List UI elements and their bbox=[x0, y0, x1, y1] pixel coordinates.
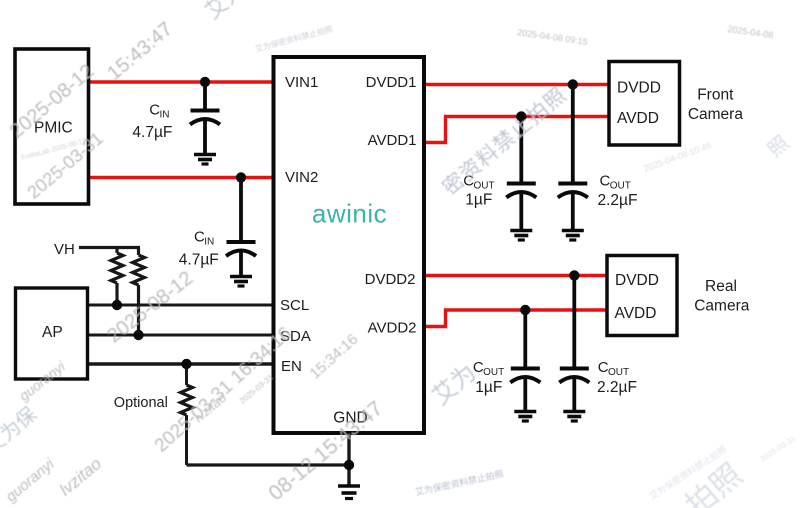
svg-text:SCL: SCL bbox=[280, 297, 309, 314]
resistor R-VH2 (VH pull-up to SDA) bbox=[133, 248, 145, 336]
node junction DVDD2/COUT4 bbox=[569, 270, 579, 280]
capacitor COUT2 (2.2uF front camera) bbox=[558, 85, 588, 232]
svg-text:EN: EN bbox=[281, 358, 302, 375]
pin SDA bbox=[280, 328, 311, 345]
AP box bbox=[16, 288, 88, 379]
node junction EN/R-EN bbox=[181, 359, 191, 369]
capacitor COUT4 (2.2uF real camera) bbox=[559, 276, 589, 413]
label CIN1 value bbox=[132, 102, 172, 142]
pin VIN2 bbox=[285, 169, 318, 186]
wire EN resistor to GND net bbox=[187, 463, 350, 466]
pin EN bbox=[281, 358, 302, 375]
svg-text:DVDD1: DVDD1 bbox=[366, 74, 417, 91]
label COUT2 value bbox=[598, 173, 638, 210]
ground for CIN1 bbox=[194, 155, 216, 165]
svg-text:AVDD2: AVDD2 bbox=[368, 320, 417, 337]
node junction AVDD2/COUT3 bbox=[520, 305, 530, 315]
ground for COUT1 bbox=[510, 231, 532, 241]
wire VIN1 (red, PMIC to VIN1) bbox=[87, 80, 275, 83]
wire VIN2 (red, PMIC to VIN2) bbox=[87, 176, 275, 179]
node junction VIN1/CIN1 bbox=[200, 77, 210, 87]
label Optional bbox=[114, 395, 168, 411]
label VH bbox=[54, 241, 75, 258]
svg-text:VIN2: VIN2 bbox=[285, 169, 318, 186]
pin SCL bbox=[280, 297, 309, 314]
wire SDA (AP to SDA) bbox=[87, 334, 275, 337]
svg-text:AVDD: AVDD bbox=[615, 305, 657, 322]
wire GND pin down bbox=[347, 432, 350, 486]
wire SCL (AP to SCL) bbox=[87, 304, 275, 307]
node junction GND net bbox=[344, 460, 354, 470]
wire VH rail bbox=[79, 246, 140, 249]
svg-text:DVDD: DVDD bbox=[615, 272, 659, 289]
svg-text:VH: VH bbox=[54, 241, 75, 258]
pin AVDD2 bbox=[368, 320, 417, 337]
label COUT1 value bbox=[463, 173, 494, 209]
capacitor CIN2 (4.7uF at VIN2) bbox=[226, 178, 256, 278]
Real Camera box bbox=[607, 256, 677, 336]
pin VIN1 bbox=[285, 74, 318, 91]
capacitor CIN1 (4.7uF at VIN1) bbox=[190, 82, 220, 155]
svg-text:AP: AP bbox=[42, 324, 63, 341]
label COUT4 value bbox=[597, 359, 637, 396]
pin GND bbox=[333, 410, 367, 427]
svg-text:Camera: Camera bbox=[694, 298, 750, 315]
svg-text:OUT: OUT bbox=[610, 181, 631, 192]
svg-text:2.2µF: 2.2µF bbox=[598, 192, 638, 209]
ground for CIN2 bbox=[230, 277, 252, 287]
label COUT3 value bbox=[473, 359, 504, 396]
node junction AVDD1/COUT1 bbox=[516, 111, 526, 121]
wire AVDD1 (red, to Front Camera AVDD) bbox=[423, 117, 611, 143]
node junction SDA/R-VH2 bbox=[133, 330, 143, 340]
pin DVDD2 bbox=[365, 271, 416, 288]
pin AVDD1 bbox=[368, 132, 417, 149]
capacitor COUT1 (1uF front camera) bbox=[506, 117, 536, 232]
svg-text:2.2µF: 2.2µF bbox=[597, 379, 637, 396]
wire DVDD1 (red, to Front Camera DVDD) bbox=[423, 83, 611, 86]
watermark layer bbox=[0, 0, 1, 1]
svg-text:awinic: awinic bbox=[312, 199, 387, 229]
capacitor COUT3 (1uF real camera) bbox=[510, 310, 540, 412]
ground for COUT2 bbox=[562, 231, 584, 241]
svg-text:Camera: Camera bbox=[688, 106, 744, 123]
label Front Camera bbox=[688, 87, 744, 124]
svg-text:VIN1: VIN1 bbox=[285, 74, 318, 91]
wire EN (AP to EN) bbox=[87, 362, 275, 365]
Front Camera box bbox=[609, 62, 680, 146]
awinic logo bbox=[312, 199, 387, 229]
resistor R-VH1 (VH pull-up to SCL) bbox=[111, 248, 123, 306]
svg-text:1µF: 1µF bbox=[465, 192, 492, 209]
wire AVDD2 (red, to Real Camera AVDD) bbox=[423, 310, 609, 327]
svg-text:AVDD1: AVDD1 bbox=[368, 132, 417, 149]
ground main GND bbox=[338, 486, 360, 499]
ground for COUT4 bbox=[563, 412, 585, 422]
svg-text:AVDD: AVDD bbox=[617, 110, 659, 127]
svg-text:IN: IN bbox=[160, 110, 170, 121]
svg-text:Optional: Optional bbox=[114, 395, 168, 411]
svg-text:Real: Real bbox=[705, 278, 737, 295]
label CIN2 value bbox=[179, 229, 219, 269]
label Real Camera bbox=[694, 278, 750, 315]
pin DVDD1 bbox=[366, 74, 417, 91]
resistor R-EN (Optional pull-down on EN) bbox=[181, 364, 193, 465]
svg-text:OUT: OUT bbox=[483, 367, 504, 378]
node junction VIN2/CIN2 bbox=[236, 172, 246, 182]
op-amp U1 main IC box bbox=[274, 57, 425, 433]
svg-text:IN: IN bbox=[204, 237, 214, 248]
node junction DVDD1/COUT2 bbox=[568, 79, 578, 89]
svg-text:OUT: OUT bbox=[474, 181, 495, 192]
ground for COUT3 bbox=[514, 412, 536, 422]
svg-text:DVDD: DVDD bbox=[617, 80, 661, 97]
svg-text:4.7µF: 4.7µF bbox=[132, 124, 172, 141]
node junction SCL/R-VH1 bbox=[112, 300, 122, 310]
svg-text:DVDD2: DVDD2 bbox=[365, 271, 416, 288]
svg-text:4.7µF: 4.7µF bbox=[179, 252, 219, 269]
svg-text:Front: Front bbox=[697, 87, 734, 104]
svg-text:OUT: OUT bbox=[608, 367, 629, 378]
wire DVDD2 (red, to Real Camera DVDD) bbox=[423, 274, 609, 277]
PMIC box bbox=[15, 49, 89, 204]
